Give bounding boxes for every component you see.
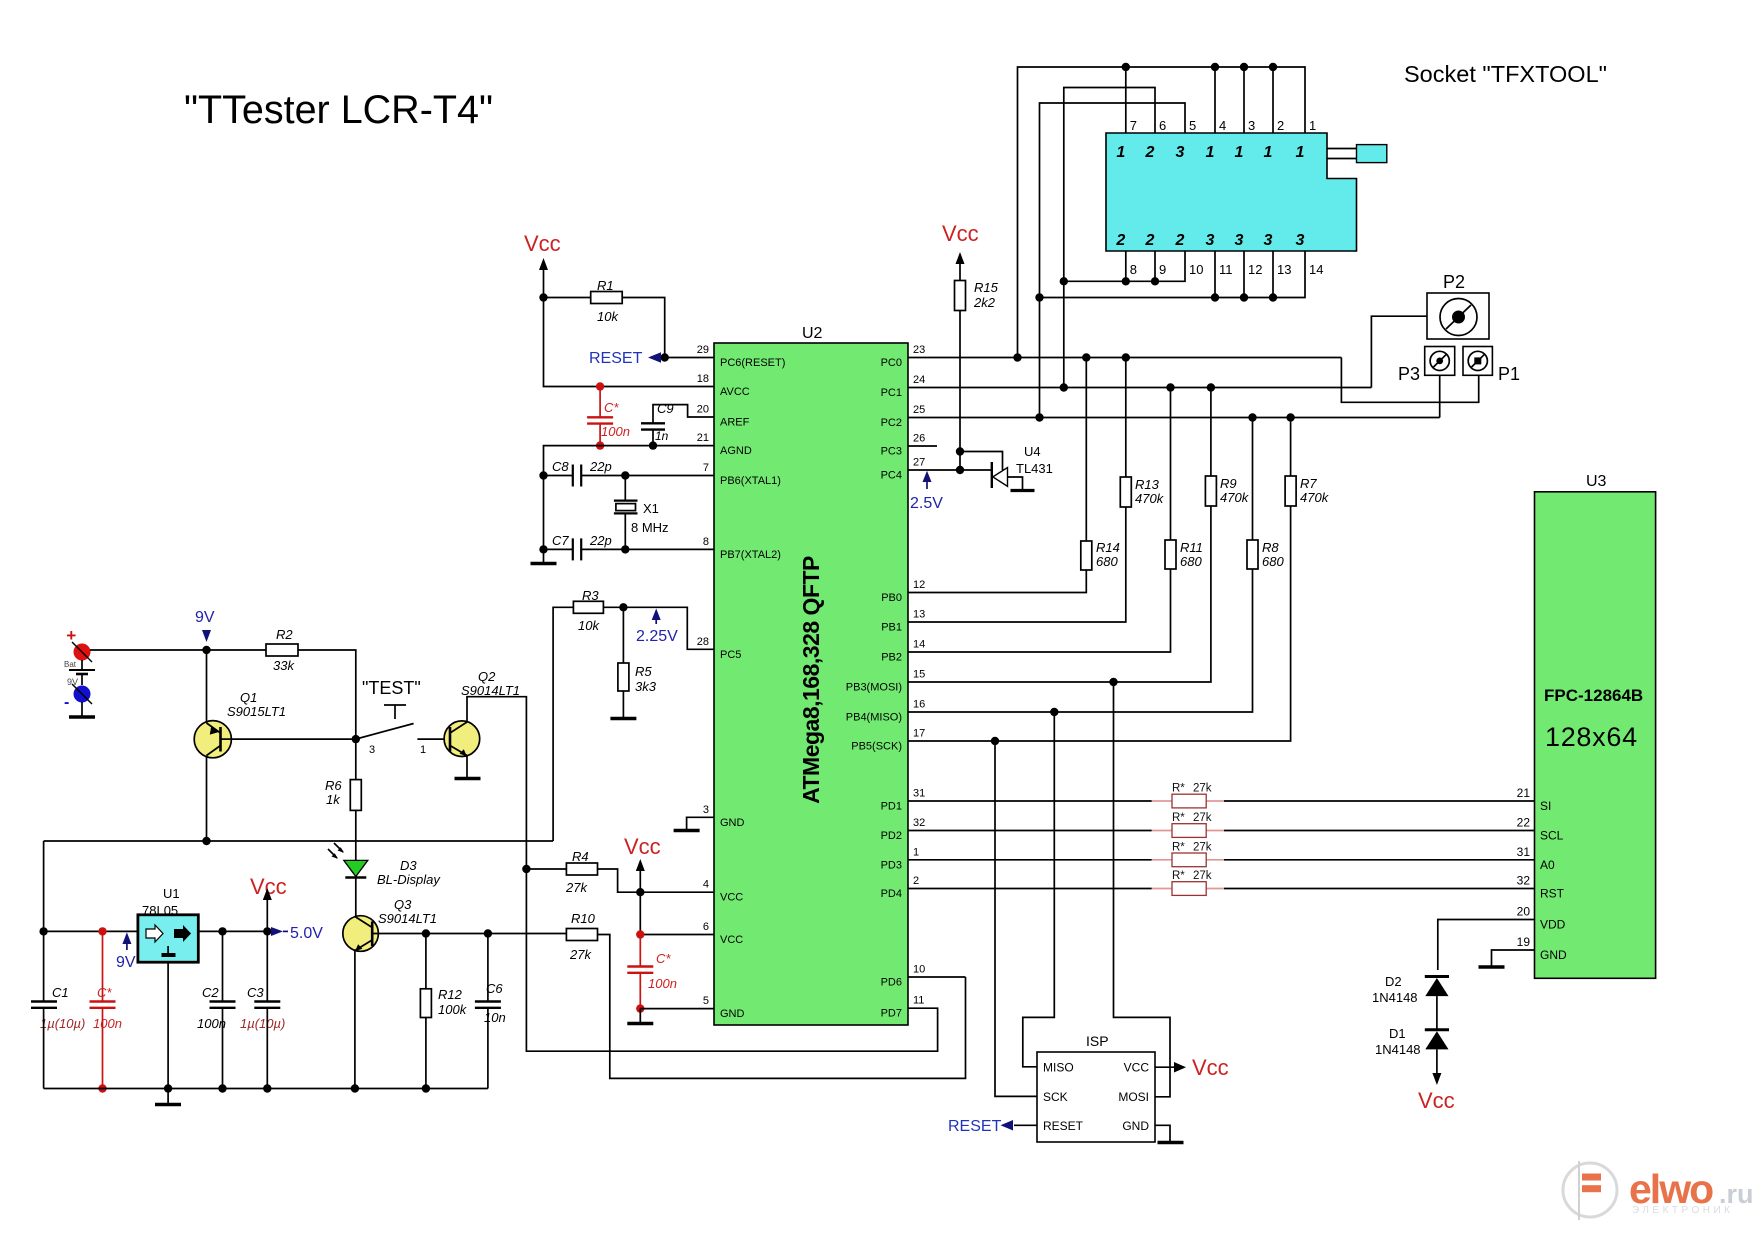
svg-text:22: 22: [1517, 816, 1531, 830]
capacitor C8 22p: [539, 459, 714, 487]
svg-text:RESET: RESET: [948, 1118, 1002, 1135]
wire R8 to PB4: [908, 569, 1253, 712]
wire GND pin5 row: [640, 1008, 714, 1010]
svg-text:1n: 1n: [655, 429, 669, 443]
wire PD6 stub: [908, 976, 966, 978]
svg-text:PD1: PD1: [881, 801, 902, 813]
wire test node 3 lower bus: [1040, 251, 1306, 298]
junction dot R12 bottom: [422, 1084, 430, 1092]
svg-text:PB0: PB0: [881, 592, 902, 604]
ground at MCU GND pin3: [674, 817, 714, 830]
svg-text:27k: 27k: [1193, 870, 1212, 882]
svg-text:C7: C7: [552, 533, 569, 548]
svg-text:1: 1: [1264, 144, 1273, 161]
wire Q2 emitter to ground: [466, 756, 468, 779]
wire test node 1 top bus: [1018, 67, 1306, 358]
wire left column down to input rail: [43, 841, 45, 931]
svg-text:D3: D3: [400, 858, 417, 873]
junction dot R8 top on PC2: [1248, 413, 1256, 421]
wire R13 to PB1: [908, 507, 1126, 622]
junction dot R1 left: [539, 293, 547, 301]
socket test-node numerals: [1115, 144, 1304, 249]
resistor R* 27k on PD3: [1152, 841, 1224, 866]
wire R15 down to PC4: [959, 311, 961, 471]
resistor R15 2k2: [955, 280, 999, 311]
svg-text:3: 3: [703, 804, 709, 816]
svg-text:D1: D1: [1389, 1026, 1406, 1041]
node Vcc above 5.0V point: [250, 874, 287, 931]
svg-text:C*: C*: [97, 985, 112, 1000]
svg-text:PC5: PC5: [720, 649, 741, 661]
svg-text:31: 31: [913, 788, 925, 800]
node Vcc at ISP VCC pin: [1155, 1055, 1229, 1080]
wire PD3 row to U3: [908, 859, 1152, 861]
svg-text:Bat: Bat: [64, 660, 77, 669]
svg-text:3k3: 3k3: [635, 679, 657, 694]
svg-text:2.5V: 2.5V: [910, 495, 943, 512]
resistor R14 680: [1081, 358, 1120, 571]
svg-text:MOSI: MOSI: [1118, 1090, 1149, 1104]
ground below battery: [69, 702, 95, 717]
wire R6 to D3 anode: [355, 810, 357, 860]
svg-text:+: +: [66, 626, 76, 645]
junction dot C6 top: [484, 929, 492, 937]
wire node2 vertical to PC1: [1063, 281, 1065, 387]
svg-text:S9014LT1: S9014LT1: [378, 911, 437, 926]
transistor Q1 S9015LT1: [194, 690, 286, 758]
svg-text:128x64: 128x64: [1545, 722, 1638, 752]
svg-text:100k: 100k: [438, 1002, 468, 1017]
svg-text:10k: 10k: [597, 309, 619, 324]
wire socket pin 9 stub: [1154, 251, 1156, 281]
junction dot bus3 left: [1035, 293, 1043, 301]
resistor R7 470k: [1285, 418, 1330, 507]
svg-text:2: 2: [1145, 232, 1155, 249]
resistor R13 470k: [1120, 358, 1164, 508]
svg-text:U3: U3: [1586, 473, 1607, 490]
test point P2: [1427, 272, 1489, 339]
svg-text:S9015LT1: S9015LT1: [227, 704, 286, 719]
svg-text:R9: R9: [1220, 476, 1237, 491]
svg-text:27: 27: [913, 457, 925, 469]
svg-text:3: 3: [1235, 232, 1244, 249]
wire D3 cathode to Q3 collector: [355, 878, 357, 917]
junction dot R12 top: [422, 929, 430, 937]
node Vcc above R15: [942, 221, 979, 281]
ground below R5: [610, 717, 636, 720]
svg-text:16: 16: [913, 699, 925, 711]
junction dot pin8: [1122, 277, 1130, 285]
wire Q3 base row: [372, 933, 566, 935]
svg-text:1: 1: [1235, 144, 1244, 161]
wire R2 to TEST node: [298, 650, 356, 735]
svg-text:R8: R8: [1262, 540, 1279, 555]
svg-text:GND: GND: [720, 1008, 745, 1020]
bottom ground rail: [44, 1088, 488, 1090]
junction dot Q3 emitter on rail: [351, 1084, 359, 1092]
test point P3: [1398, 347, 1455, 385]
wire socket pin 4 stub: [1214, 67, 1216, 133]
junction dot VCC pin4 node: [636, 888, 644, 896]
node Vcc below D1: [1418, 1049, 1455, 1113]
svg-text:C2: C2: [202, 985, 219, 1000]
ground below bottom rail: [155, 1089, 181, 1105]
junction dot node1 on PC0: [1013, 353, 1021, 361]
test point P1: [1463, 347, 1520, 385]
svg-text:9V: 9V: [116, 954, 136, 971]
svg-text:Vcc: Vcc: [524, 231, 561, 256]
junction dot node3 on PC2: [1035, 413, 1043, 421]
resistor R4 27k: [526, 849, 597, 895]
svg-text:100n: 100n: [93, 1016, 122, 1031]
junction dot Q1 collector / switched 9V line: [202, 837, 210, 845]
resistor R2 33k: [266, 627, 298, 673]
svg-text:27k: 27k: [1193, 812, 1212, 824]
svg-text:29: 29: [697, 344, 709, 356]
test socket ZIF body: [1106, 133, 1387, 251]
svg-text:RESET: RESET: [589, 350, 643, 367]
svg-text:3: 3: [1206, 232, 1215, 249]
svg-text:Q1: Q1: [240, 690, 257, 705]
svg-text:R7: R7: [1300, 476, 1317, 491]
svg-text:C3: C3: [247, 985, 264, 1000]
svg-text:R5: R5: [635, 664, 652, 679]
svg-text:3: 3: [1296, 232, 1305, 249]
svg-text:PB7(XTAL2): PB7(XTAL2): [720, 549, 781, 561]
junction dot TEST node: [352, 735, 360, 743]
svg-text:BL-Display: BL-Display: [377, 872, 441, 887]
resistor R* 27k on PD1: [1152, 783, 1224, 808]
svg-text:470k: 470k: [1135, 491, 1165, 506]
battery minus terminal Bat-: [64, 684, 92, 711]
svg-text:2k2: 2k2: [973, 295, 996, 310]
wire R7 to PB5: [908, 506, 1291, 741]
junction dot R14 top on PC0: [1082, 353, 1090, 361]
svg-text:C*: C*: [604, 400, 619, 415]
svg-text:Q3: Q3: [394, 897, 412, 912]
junction dot pin3 on bus1: [1240, 63, 1248, 71]
svg-text:11: 11: [1219, 262, 1233, 277]
junction dot MISO takeoff on PB4: [1050, 708, 1058, 716]
wire R11 to PB2: [908, 569, 1171, 652]
svg-text:D2: D2: [1385, 974, 1402, 989]
svg-text:1µ(10µ): 1µ(10µ): [40, 1016, 85, 1031]
wire Q3 emitter to ground rail: [354, 951, 356, 1089]
svg-text:9V: 9V: [195, 609, 215, 626]
svg-text:11: 11: [913, 995, 924, 1007]
elwo.ru logo: [1563, 1161, 1754, 1220]
svg-text:32: 32: [913, 817, 925, 829]
wire R14 to PB0: [908, 570, 1086, 593]
svg-text:100n: 100n: [197, 1016, 226, 1031]
svg-text:13: 13: [913, 609, 925, 621]
svg-text:PB2: PB2: [881, 652, 902, 664]
capacitor C* 100n input (red): [90, 927, 122, 1093]
wire R3 to PC5: [603, 607, 714, 649]
svg-text:Socket "TFXTOOL": Socket "TFXTOOL": [1404, 61, 1607, 87]
resistor R5 3k3: [618, 607, 657, 718]
capacitor C1 1u(10u): [31, 931, 85, 1088]
junction dot C2 top: [218, 927, 226, 935]
capacitor C* 100n AVCC (red): [587, 382, 630, 450]
junction dot TL431 ref takeoff: [956, 447, 964, 455]
wire PD4 row to U3: [908, 888, 1152, 890]
resistor R1 10k: [544, 278, 623, 324]
svg-text:27k: 27k: [1193, 841, 1212, 853]
svg-text:GND: GND: [1122, 1119, 1149, 1133]
svg-text:26: 26: [913, 433, 925, 445]
svg-text:"TEST": "TEST": [362, 678, 421, 698]
svg-text:3: 3: [1264, 232, 1273, 249]
svg-text:R*: R*: [1172, 783, 1185, 795]
junction dot U1 gnd on bottom rail: [164, 1084, 172, 1092]
wire Q1 collector down: [206, 756, 208, 842]
svg-text:Vcc: Vcc: [1192, 1055, 1229, 1080]
svg-text:RST: RST: [1540, 887, 1565, 901]
wire socket pin 2 stub: [1272, 67, 1274, 133]
svg-text:AGND: AGND: [720, 445, 752, 457]
wire socket pin 3 stub: [1243, 67, 1245, 133]
transistor Q3 S9014LT1: [343, 897, 437, 951]
junction dot C3 bottom: [263, 1084, 271, 1092]
wire AGND row: [544, 446, 715, 563]
svg-text:Vcc: Vcc: [1418, 1088, 1455, 1113]
wire VCC pin6 row: [640, 934, 714, 936]
svg-text:P2: P2: [1443, 272, 1465, 292]
junction dot R13 top on PC0: [1122, 353, 1130, 361]
svg-text:PB3(MOSI): PB3(MOSI): [846, 682, 902, 694]
capacitor C9 1n: [641, 401, 714, 450]
svg-text:RESET: RESET: [1043, 1119, 1084, 1133]
wire socket pin 13 stub: [1272, 251, 1274, 298]
wire PD2 row to U3: [908, 830, 1152, 832]
junction dot 9V/Q1 emitter: [202, 646, 210, 654]
svg-text:27k: 27k: [565, 880, 588, 895]
wire U1 ground pin down: [167, 962, 169, 1088]
diode D2 1N4148: [1372, 974, 1449, 1005]
wire test node 2 lower bus: [1064, 251, 1185, 281]
crystal X1 8MHz: [614, 476, 669, 550]
svg-text:25: 25: [913, 404, 925, 416]
wire PC2 row: [908, 417, 1440, 419]
svg-text:ЭЛЕКТРОНИК: ЭЛЕКТРОНИК: [1632, 1205, 1733, 1216]
battery plus terminal Bat+: [66, 626, 92, 662]
capacitor C2 100n: [197, 931, 236, 1088]
svg-text:Vcc: Vcc: [942, 221, 979, 246]
wire P3 stem to PC2: [1439, 375, 1441, 417]
svg-text:FPC-12864B: FPC-12864B: [1544, 686, 1643, 705]
svg-text:"TTester LCR-T4": "TTester LCR-T4": [184, 88, 493, 132]
junction dot R4 left: [522, 865, 530, 873]
svg-text:PB5(SCK): PB5(SCK): [851, 741, 902, 753]
svg-text:21: 21: [1517, 786, 1531, 800]
wire D2 to D1: [1436, 996, 1438, 1029]
svg-text:22p: 22p: [589, 459, 612, 474]
ground below C7/C8 column: [531, 562, 557, 565]
svg-text:GND: GND: [720, 817, 745, 829]
svg-text:8: 8: [703, 536, 709, 548]
svg-text:R13: R13: [1135, 477, 1160, 492]
svg-text:1N4148: 1N4148: [1375, 1042, 1421, 1057]
svg-text:PB4(MISO): PB4(MISO): [846, 712, 902, 724]
wire test node 3 upper bus (pin 5): [1040, 103, 1186, 298]
junction dot R9 top on PC1: [1207, 383, 1215, 391]
wire PD1 row to U3: [908, 800, 1152, 802]
wire test node 2 upper bus (pin 6): [1064, 88, 1155, 282]
capacitor C3 1u(10u): [240, 931, 285, 1088]
ground below Q2: [455, 777, 481, 780]
svg-text:2: 2: [1145, 144, 1155, 161]
svg-text:R*: R*: [1172, 812, 1185, 824]
battery BT1 9V: [64, 660, 95, 687]
svg-text:21: 21: [697, 432, 709, 444]
junction dot node2 on PC1: [1060, 383, 1068, 391]
svg-text:VCC: VCC: [720, 934, 743, 946]
svg-text:2: 2: [1115, 232, 1125, 249]
svg-text:VCC: VCC: [720, 892, 743, 904]
svg-text:P3: P3: [1398, 364, 1420, 384]
svg-text:27k: 27k: [1193, 783, 1212, 795]
svg-text:10: 10: [913, 964, 925, 976]
svg-text:VCC: VCC: [1124, 1061, 1150, 1075]
svg-text:100n: 100n: [601, 424, 630, 439]
resistor R11 680: [1165, 388, 1203, 570]
svg-text:10: 10: [1189, 262, 1203, 277]
wire PC3 pin26 stub: [908, 445, 937, 447]
svg-text:3: 3: [1248, 118, 1255, 133]
LCD module U3 FPC-12864B: [1535, 473, 1656, 978]
svg-text:MISO: MISO: [1043, 1061, 1074, 1075]
wire PB5 SCK to ISP: [995, 741, 1037, 1096]
svg-text:PD4: PD4: [881, 888, 902, 900]
svg-text:PC2: PC2: [881, 417, 902, 429]
ground at ISP GND pin: [1155, 1125, 1184, 1142]
svg-text:680: 680: [1180, 554, 1202, 569]
junction dot SCK takeoff on PB5: [991, 737, 999, 745]
svg-text:4: 4: [1219, 118, 1226, 133]
wire socket pin 11 stub: [1214, 251, 1216, 298]
junction dot input rail left: [39, 927, 47, 935]
resistor R12 100k: [420, 934, 467, 1089]
junction dot pin7 on bus1: [1122, 63, 1130, 71]
svg-text:R12: R12: [438, 987, 463, 1002]
net label RESET at ISP: [948, 1118, 1037, 1135]
shunt reference U4 TL431: [992, 444, 1053, 491]
svg-text:PB1: PB1: [881, 622, 902, 634]
junction dot pin2 on bus1: [1269, 63, 1277, 71]
junction dot pin4 on bus1: [1211, 63, 1219, 71]
junction dot pin9: [1151, 277, 1159, 285]
svg-text:PC1: PC1: [881, 387, 902, 399]
resistor R* 27k on PD2: [1152, 812, 1224, 837]
svg-text:6: 6: [703, 921, 709, 933]
junction dot pin12: [1240, 293, 1248, 301]
svg-text:TL431: TL431: [1016, 461, 1053, 476]
svg-text:12: 12: [1248, 262, 1262, 277]
junction dot pin11: [1211, 293, 1219, 301]
capacitor C7 22p: [539, 533, 714, 560]
wire PB4 MISO to ISP: [1023, 712, 1055, 1067]
svg-text:R4: R4: [572, 849, 589, 864]
svg-text:P1: P1: [1498, 364, 1520, 384]
svg-text:SCK: SCK: [1043, 1090, 1068, 1104]
svg-text:1: 1: [913, 846, 919, 858]
svg-text:PD6: PD6: [881, 977, 902, 989]
wire PC1 to P2: [1371, 316, 1427, 387]
resistor R9 470k: [1205, 388, 1249, 507]
node Vcc above MCU VCC: [624, 834, 661, 892]
wire R4 to VCC pin row: [598, 869, 715, 892]
svg-text:680: 680: [1262, 554, 1284, 569]
svg-text:5: 5: [1189, 118, 1196, 133]
svg-text:R15: R15: [974, 280, 999, 295]
capacitor C* 100n at MCU (red): [627, 930, 677, 1013]
svg-text:17: 17: [913, 728, 925, 740]
svg-text:1k: 1k: [326, 792, 341, 807]
junction dot MOSI takeoff on PB3: [1109, 678, 1117, 686]
wire Q2 collector up and over: [467, 697, 526, 869]
node 9V label at U1 input: [116, 932, 136, 971]
wire U1 output rail: [198, 930, 267, 932]
svg-text:6: 6: [1159, 118, 1166, 133]
wire battery+ to 9V node: [90, 649, 207, 651]
svg-text:18: 18: [697, 373, 709, 385]
svg-text:13: 13: [1277, 262, 1291, 277]
junction dot RESET node: [661, 353, 669, 361]
svg-text:R10: R10: [571, 911, 596, 926]
wire PC4 row to TL431: [908, 469, 992, 471]
wire R3 left leg down to switched 9V line: [553, 607, 573, 841]
wire switch contact 1 to Q2 base: [417, 738, 450, 740]
svg-text:5.0V: 5.0V: [290, 925, 323, 942]
svg-text:33k: 33k: [273, 658, 295, 673]
svg-text:ISP: ISP: [1086, 1033, 1109, 1049]
junction dot R7 top on PC2: [1286, 413, 1294, 421]
wire socket pin 8 stub: [1125, 251, 1127, 281]
wire TL431 ref: [960, 452, 1003, 471]
svg-text:R*: R*: [1172, 841, 1185, 853]
svg-text:U1: U1: [163, 886, 180, 901]
wire Q1 emitter up to 9V: [206, 650, 208, 723]
svg-text:A0: A0: [1540, 858, 1555, 872]
svg-text:VDD: VDD: [1540, 918, 1566, 932]
pushbutton TEST: [358, 678, 426, 756]
junction dot C2 bottom: [218, 1084, 226, 1092]
svg-text:PC3: PC3: [881, 446, 902, 458]
svg-text:X1: X1: [643, 501, 659, 516]
svg-text:15: 15: [913, 669, 925, 681]
svg-text:PC0: PC0: [881, 357, 902, 369]
resistor R10 27k: [566, 911, 597, 962]
svg-text:ATMega8,168,328 QFTP: ATMega8,168,328 QFTP: [798, 556, 824, 804]
svg-text:C6: C6: [486, 981, 503, 996]
socket pin numbers: [1130, 118, 1324, 277]
node 9V label: [195, 609, 215, 642]
resistor R3 10k: [573, 588, 603, 633]
capacitor C6 10n: [475, 934, 506, 1089]
wire U3 VDD to diodes: [1438, 920, 1535, 971]
wire node3 vertical to PC2: [1039, 298, 1041, 418]
svg-text:23: 23: [913, 344, 925, 356]
svg-text:28: 28: [697, 636, 709, 648]
transistor Q2 S9014LT1: [444, 669, 520, 757]
svg-text:3: 3: [369, 744, 375, 756]
node 5.0V annotation: [271, 925, 323, 942]
svg-text:470k: 470k: [1300, 490, 1330, 505]
svg-text:AREF: AREF: [720, 417, 750, 429]
wire 9V node to R2: [207, 649, 267, 651]
svg-text:1: 1: [1296, 144, 1305, 161]
